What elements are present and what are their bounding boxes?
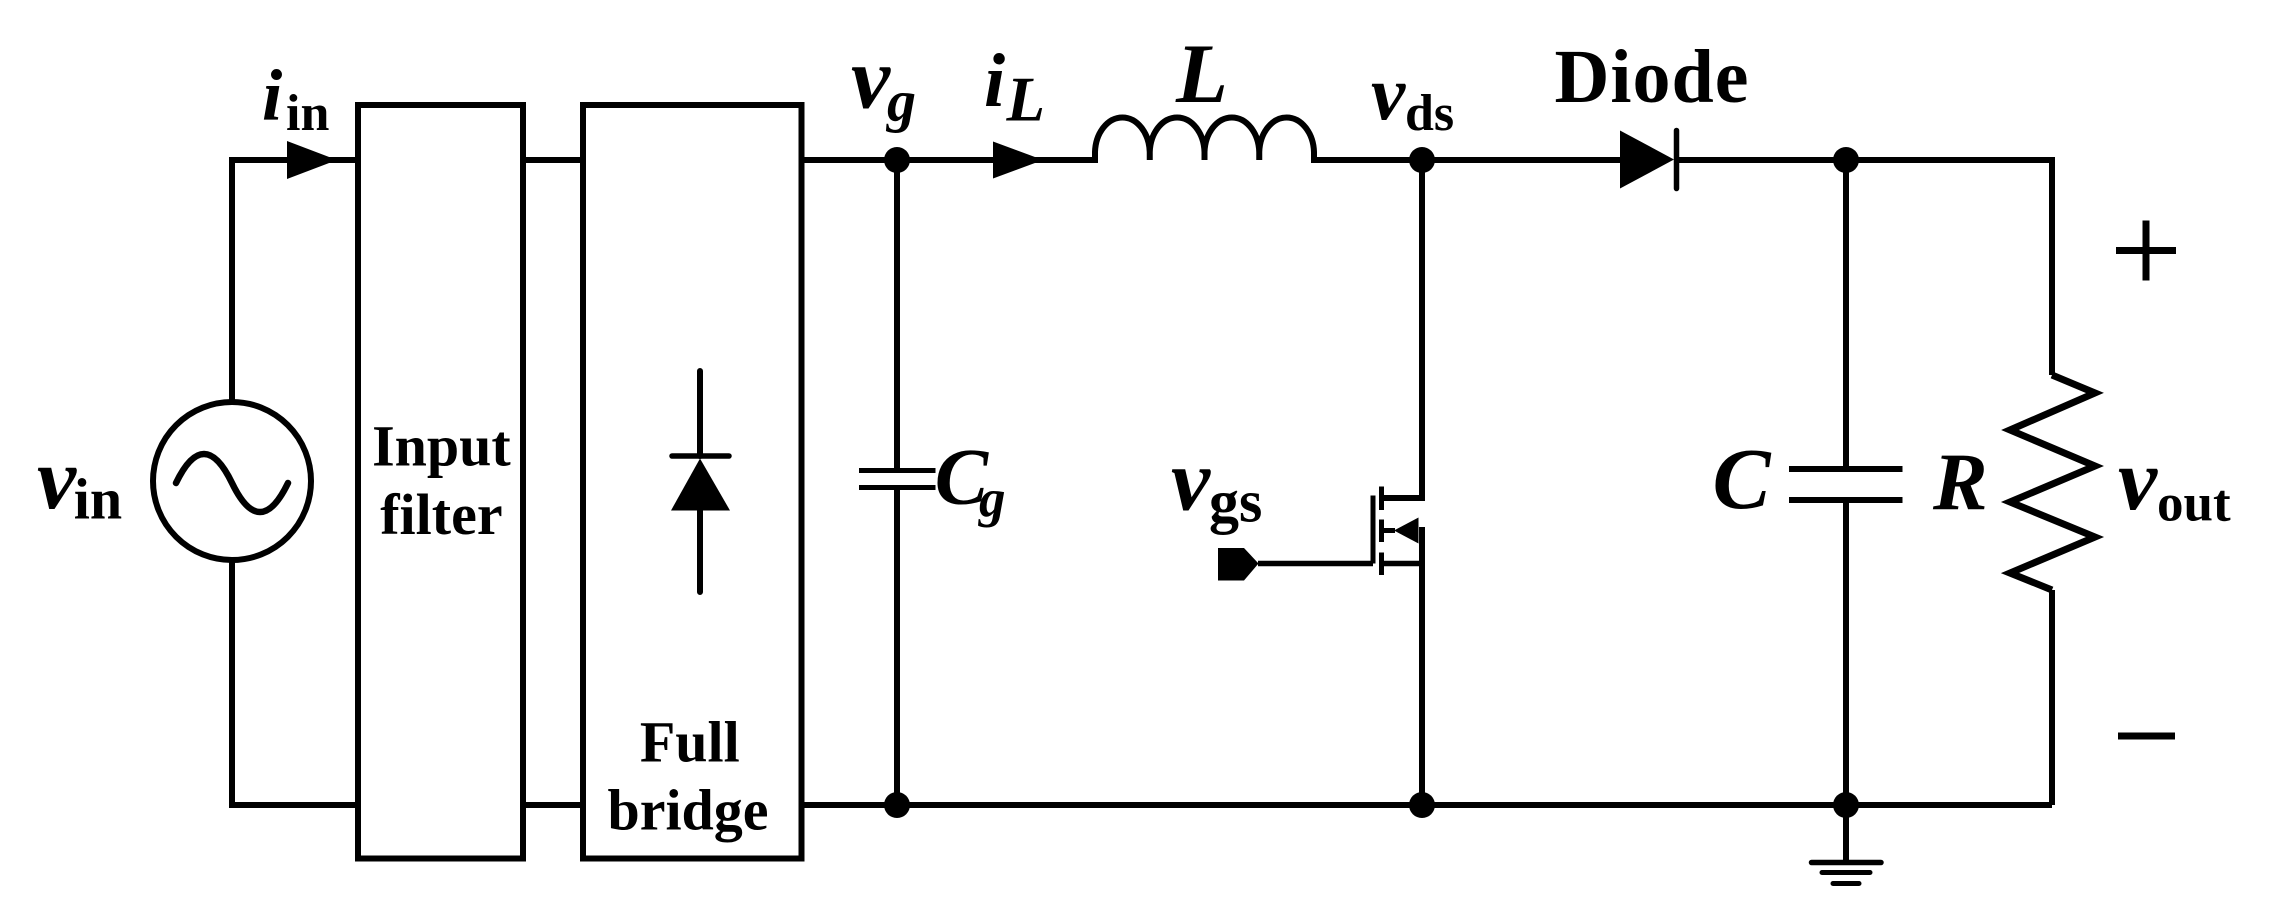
- svg-text:L: L: [1175, 27, 1228, 121]
- svg-text:R: R: [1932, 436, 1988, 527]
- svg-text:out: out: [2157, 475, 2231, 533]
- svg-text:bridge: bridge: [607, 778, 768, 843]
- svg-text:g: g: [978, 470, 1006, 528]
- svg-text:v: v: [1371, 50, 1406, 136]
- svg-text:in: in: [286, 85, 329, 142]
- svg-text:in: in: [74, 467, 122, 532]
- svg-text:Full: Full: [640, 710, 740, 775]
- svg-text:L: L: [1006, 65, 1045, 135]
- svg-text:v: v: [2118, 432, 2158, 529]
- svg-text:ds: ds: [1405, 85, 1454, 142]
- svg-text:Diode: Diode: [1555, 35, 1750, 119]
- svg-text:gs: gs: [1209, 469, 1262, 535]
- svg-text:i: i: [984, 39, 1005, 123]
- svg-text:Input: Input: [372, 414, 511, 479]
- svg-text:filter: filter: [380, 482, 502, 547]
- svg-text:v: v: [37, 431, 77, 528]
- svg-text:g: g: [885, 68, 916, 133]
- svg-text:i: i: [262, 55, 282, 136]
- svg-text:v: v: [851, 31, 891, 128]
- svg-text:C: C: [1713, 430, 1772, 527]
- svg-text:v: v: [1171, 433, 1211, 530]
